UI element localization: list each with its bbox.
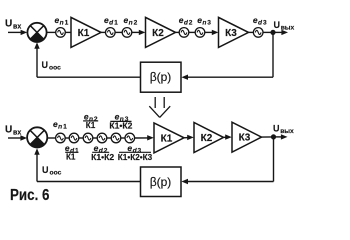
wire en1 to K1 (top) xyxy=(65,31,71,33)
svg-text:К1•К2: К1•К2 xyxy=(91,152,114,162)
wire K2 to ed2 (top) xyxy=(176,31,180,33)
wire output arrow (top) xyxy=(273,31,282,33)
noise source ed2 (top) xyxy=(179,28,189,38)
noise source ed3 (bottom) xyxy=(125,133,135,143)
wire K1 to K2 with arrow (bottom) xyxy=(184,137,188,139)
label Uвых (bottom output) xyxy=(273,123,294,135)
noise source en2 (bottom) xyxy=(83,133,93,143)
noise source en2 (top) xyxy=(122,28,132,38)
noise source en1 (bottom) xyxy=(56,133,66,143)
node output junction (bottom) xyxy=(271,134,276,139)
wire ed3 to output node (top) xyxy=(263,31,273,33)
wire en1 to ed1 (bottom) xyxy=(65,137,69,139)
node output junction (top) xyxy=(270,30,275,35)
wire feedback horizontal into beta block (bottom) xyxy=(187,181,274,183)
noise source ed1 (top) xyxy=(106,28,116,38)
wire output arrow (bottom) xyxy=(274,136,282,138)
amplifier K2 (bottom) xyxy=(194,123,224,153)
wire feedback horizontal into beta block (top) xyxy=(187,76,273,78)
wire K1 to ed1 (top) xyxy=(101,31,106,33)
noise source en1 (top) xyxy=(56,28,66,38)
wire en3 to ed3 (bottom) xyxy=(121,137,126,139)
svg-text:β(p): β(p) xyxy=(150,70,172,84)
fraction label ed3/K1*K2*K3 (bottom, below) xyxy=(118,143,153,162)
svg-text:К1: К1 xyxy=(86,120,96,130)
label Uоос (top) xyxy=(42,60,62,72)
wire K2 to K3 with arrow (bottom) xyxy=(224,136,227,138)
wire feedback vertical (bottom right) xyxy=(273,137,275,182)
wire K3 to ed3 (top) xyxy=(249,31,254,33)
fraction label ed2/K1*K2 (bottom, below) xyxy=(91,143,114,162)
fraction label en3/K1*K2 (bottom, above) xyxy=(109,112,132,131)
fraction label ed1/K1 (bottom, below) xyxy=(65,143,79,162)
wire en3 to K3 with arrow (top) xyxy=(205,31,213,33)
svg-text:К1: К1 xyxy=(161,133,173,144)
label Uвых (top output) xyxy=(274,20,295,32)
svg-text:К2: К2 xyxy=(201,133,213,144)
feedback block beta(p) (top) xyxy=(141,62,182,92)
label en3 (top) xyxy=(197,15,211,27)
caption Рис. 6 xyxy=(10,187,50,204)
feedback block beta(p) (bottom) xyxy=(141,167,182,197)
noise source ed3 (top) xyxy=(253,28,263,38)
summing node S1 (top) xyxy=(27,23,46,42)
wire summing node to en1 (bottom) xyxy=(47,137,56,139)
fraction label en2/K1 (bottom, above) xyxy=(84,111,98,130)
svg-text:К1: К1 xyxy=(78,28,90,39)
label Uвх (top input) xyxy=(5,19,21,31)
amplifier K1 (top) xyxy=(71,17,101,47)
label ed1 (top) xyxy=(104,15,118,27)
wire beta block to below summing node (top) xyxy=(37,76,141,78)
label en1 (top) xyxy=(55,15,69,27)
svg-text:К3: К3 xyxy=(239,133,251,144)
label ed2 (top) xyxy=(179,15,193,27)
label ed3 (top) xyxy=(253,15,267,27)
wire K3 to output node (bottom) xyxy=(262,136,274,138)
wire ed2 to en3 (top) xyxy=(189,31,196,33)
svg-text:β(p): β(p) xyxy=(150,175,172,189)
wire ed1 to en2 (top) xyxy=(115,31,123,33)
wire beta block to below summing node (bottom) xyxy=(37,181,141,183)
label en1 (bottom) xyxy=(53,119,67,131)
noise source en3 (bottom) xyxy=(111,133,121,143)
wire ed3 to K1 with arrow (bottom) xyxy=(134,137,148,139)
wire input to summing node (bottom) xyxy=(8,137,22,139)
amplifier K2 (top) xyxy=(146,17,176,47)
wire en2 to ed2 (bottom) xyxy=(93,137,98,139)
svg-text:К2: К2 xyxy=(152,28,164,39)
amplifier K1 (bottom) xyxy=(154,123,184,153)
svg-text:К3: К3 xyxy=(225,28,237,39)
summing node S2 (bottom) xyxy=(27,127,47,147)
label en2 (top) xyxy=(124,15,138,27)
wire feedback vertical (top right) xyxy=(272,32,274,77)
label Uвх (bottom input) xyxy=(5,125,21,137)
wire en2 to K2 with arrow (top) xyxy=(132,31,140,33)
big double arrow between diagrams xyxy=(149,97,170,117)
noise source ed2 (bottom) xyxy=(97,133,107,143)
noise source ed1 (bottom) xyxy=(69,133,79,143)
amplifier K3 (top) xyxy=(219,17,249,47)
label Uоос (bottom) xyxy=(42,165,62,177)
wire input to summing node (top) xyxy=(8,31,22,33)
svg-text:К1•К2•К3: К1•К2•К3 xyxy=(118,152,153,162)
wire summing node to en1 (top) xyxy=(47,31,56,33)
svg-text:Рис. 6: Рис. 6 xyxy=(10,187,50,204)
wire ed2 to en3 (bottom) xyxy=(107,137,112,139)
wire ed1 to en2 (bottom) xyxy=(79,137,84,139)
svg-text:К1: К1 xyxy=(66,152,76,162)
amplifier K3 (bottom) xyxy=(232,122,262,152)
noise source en3 (top) xyxy=(195,28,205,38)
